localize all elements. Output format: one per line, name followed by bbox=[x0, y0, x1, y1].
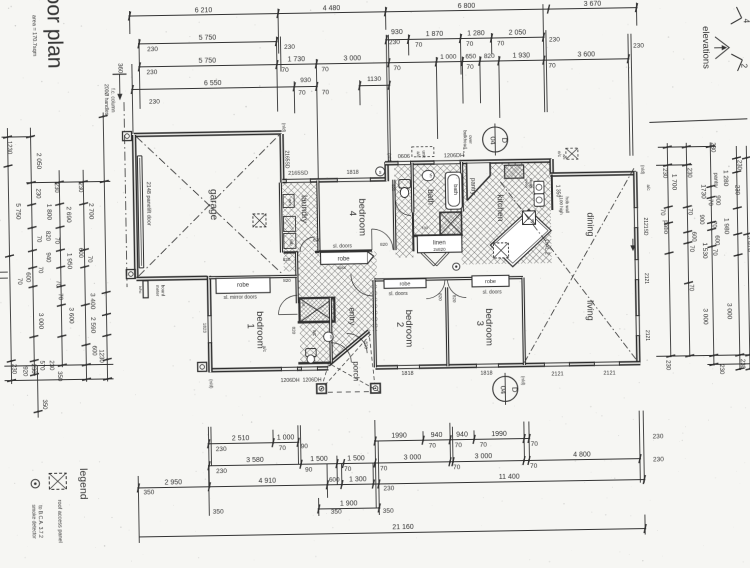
svg-text:5 750: 5 750 bbox=[14, 203, 21, 220]
svg-text:1 870: 1 870 bbox=[426, 31, 444, 38]
svg-text:230: 230 bbox=[216, 446, 227, 453]
svg-text:70: 70 bbox=[530, 463, 538, 470]
svg-text:04: 04 bbox=[489, 136, 498, 144]
svg-text:230: 230 bbox=[146, 69, 157, 76]
svg-text:over: over bbox=[468, 135, 473, 144]
svg-text:3 000: 3 000 bbox=[475, 453, 493, 460]
svg-text:3 000: 3 000 bbox=[701, 308, 708, 325]
svg-text:570: 570 bbox=[38, 360, 44, 371]
svg-text:600: 600 bbox=[713, 235, 719, 246]
svg-text:1206DH: 1206DH bbox=[281, 378, 300, 384]
svg-text:900: 900 bbox=[714, 195, 720, 206]
svg-text:1823: 1823 bbox=[202, 323, 207, 334]
svg-text:a/c: a/c bbox=[262, 346, 267, 353]
svg-text:70: 70 bbox=[281, 67, 289, 74]
svg-text:wm: wm bbox=[288, 199, 293, 206]
svg-text:2121: 2121 bbox=[644, 330, 650, 341]
svg-text:3 670: 3 670 bbox=[584, 1, 602, 8]
svg-text:70: 70 bbox=[688, 284, 694, 291]
svg-text:2121: 2121 bbox=[643, 273, 649, 284]
svg-text:940: 940 bbox=[431, 432, 443, 439]
svg-text:70: 70 bbox=[53, 237, 59, 244]
svg-text:4 480: 4 480 bbox=[323, 5, 341, 12]
svg-text:sl. doors: sl. doors bbox=[483, 289, 502, 295]
svg-text:70: 70 bbox=[455, 442, 463, 449]
svg-text:sl. doors: sl. doors bbox=[389, 291, 408, 297]
svg-text:230: 230 bbox=[733, 185, 739, 196]
svg-text:70: 70 bbox=[321, 66, 329, 73]
svg-text:2x820: 2x820 bbox=[433, 247, 446, 252]
svg-text:(n/d): (n/d) bbox=[521, 376, 526, 386]
svg-text:70: 70 bbox=[57, 293, 63, 300]
svg-text:5 750: 5 750 bbox=[198, 58, 216, 65]
svg-text:230: 230 bbox=[664, 360, 670, 371]
svg-text:70: 70 bbox=[37, 267, 43, 274]
svg-text:pantry: pantry bbox=[469, 178, 475, 195]
svg-text:bath: bath bbox=[426, 189, 435, 205]
svg-text:(n/d): (n/d) bbox=[387, 153, 392, 163]
svg-text:21 160: 21 160 bbox=[392, 524, 414, 531]
svg-text:1730: 1730 bbox=[699, 184, 706, 199]
svg-text:1100 high: 1100 high bbox=[559, 195, 564, 215]
svg-text:230: 230 bbox=[147, 46, 158, 53]
svg-text:3 600: 3 600 bbox=[67, 307, 74, 324]
svg-text:2165SD: 2165SD bbox=[283, 150, 289, 169]
svg-text:230: 230 bbox=[389, 39, 400, 46]
svg-text:robe: robe bbox=[338, 256, 351, 262]
svg-text:600: 600 bbox=[91, 346, 97, 357]
svg-text:GAL 2: GAL 2 bbox=[543, 239, 549, 254]
svg-text:bedroom: bedroom bbox=[403, 310, 415, 348]
svg-text:sd: sd bbox=[301, 302, 306, 306]
svg-text:820: 820 bbox=[452, 295, 457, 303]
svg-text:350: 350 bbox=[331, 509, 342, 516]
svg-text:1206DH: 1206DH bbox=[303, 377, 322, 383]
svg-text:3 000: 3 000 bbox=[725, 303, 732, 320]
svg-text:1 930: 1 930 bbox=[512, 52, 530, 59]
svg-text:1 500: 1 500 bbox=[310, 456, 328, 463]
svg-text:legend: legend bbox=[77, 468, 90, 500]
svg-text:2 590: 2 590 bbox=[89, 317, 96, 334]
svg-text:70: 70 bbox=[453, 464, 461, 471]
svg-text:unit: unit bbox=[421, 150, 426, 158]
svg-text:1 000: 1 000 bbox=[440, 54, 457, 61]
svg-text:patio: patio bbox=[662, 220, 669, 235]
svg-text:350: 350 bbox=[143, 489, 154, 496]
svg-text:230: 230 bbox=[549, 36, 560, 43]
svg-text:70: 70 bbox=[531, 441, 539, 448]
svg-text:230: 230 bbox=[709, 142, 715, 153]
svg-text:70: 70 bbox=[548, 62, 556, 69]
svg-text:70: 70 bbox=[54, 280, 60, 287]
svg-text:pantry: pantry bbox=[712, 173, 718, 189]
svg-text:820: 820 bbox=[283, 278, 291, 283]
svg-text:70: 70 bbox=[711, 249, 717, 256]
svg-text:600: 600 bbox=[690, 232, 696, 243]
svg-text:230: 230 bbox=[34, 189, 40, 200]
svg-text:sl. doors: sl. doors bbox=[333, 243, 352, 249]
svg-text:2 510: 2 510 bbox=[232, 435, 250, 442]
svg-text:230: 230 bbox=[718, 364, 724, 375]
svg-text:04: 04 bbox=[499, 386, 508, 394]
svg-text:70: 70 bbox=[497, 40, 505, 47]
svg-text:920: 920 bbox=[21, 366, 27, 377]
svg-text:linen: linen bbox=[433, 240, 446, 246]
svg-text:70: 70 bbox=[380, 465, 388, 472]
svg-text:1 730: 1 730 bbox=[287, 56, 305, 63]
svg-text:1 350: 1 350 bbox=[554, 185, 560, 198]
svg-text:laundry: laundry bbox=[300, 195, 310, 224]
svg-text:3 000: 3 000 bbox=[343, 55, 361, 62]
svg-text:2148 panelift door: 2148 panelift door bbox=[145, 182, 152, 226]
svg-text:70: 70 bbox=[659, 209, 665, 216]
svg-text:1990: 1990 bbox=[491, 431, 507, 438]
svg-text:350: 350 bbox=[383, 508, 394, 515]
svg-text:350: 350 bbox=[41, 399, 47, 410]
svg-text:820: 820 bbox=[438, 293, 443, 301]
svg-text:820: 820 bbox=[484, 53, 495, 60]
svg-text:f.c. column: f.c. column bbox=[109, 88, 115, 112]
svg-text:1 800: 1 800 bbox=[45, 204, 52, 221]
svg-text:70: 70 bbox=[344, 466, 352, 473]
svg-text:70: 70 bbox=[86, 256, 92, 263]
svg-text:360: 360 bbox=[116, 63, 122, 74]
svg-text:hob wall: hob wall bbox=[565, 197, 570, 214]
svg-text:2 050: 2 050 bbox=[35, 153, 42, 170]
svg-text:6 550: 6 550 bbox=[204, 80, 222, 87]
svg-text:1 000: 1 000 bbox=[277, 434, 295, 441]
svg-text:70: 70 bbox=[16, 278, 22, 285]
svg-text:70: 70 bbox=[415, 42, 423, 49]
svg-text:1 950: 1 950 bbox=[65, 253, 72, 270]
svg-text:930: 930 bbox=[300, 77, 311, 84]
svg-text:D: D bbox=[510, 387, 519, 393]
svg-text:11 400: 11 400 bbox=[499, 474, 520, 481]
svg-text:2: 2 bbox=[739, 64, 748, 69]
svg-text:3 600: 3 600 bbox=[577, 51, 595, 58]
svg-text:820: 820 bbox=[363, 341, 368, 349]
svg-text:6 800: 6 800 bbox=[458, 3, 476, 10]
svg-text:1: 1 bbox=[245, 323, 256, 328]
svg-text:2121: 2121 bbox=[603, 371, 615, 377]
svg-text:730: 730 bbox=[421, 225, 429, 230]
svg-text:3 400: 3 400 bbox=[89, 293, 96, 310]
svg-text:70: 70 bbox=[686, 208, 692, 215]
svg-text:1130: 1130 bbox=[367, 76, 381, 83]
svg-text:230: 230 bbox=[661, 168, 667, 179]
svg-text:a/c: a/c bbox=[416, 151, 421, 158]
svg-text:bedroom: bedroom bbox=[356, 198, 368, 236]
svg-text:1818: 1818 bbox=[347, 170, 359, 176]
svg-text:820: 820 bbox=[283, 257, 291, 262]
svg-text:roof access panel: roof access panel bbox=[56, 500, 63, 543]
svg-text:3 000: 3 000 bbox=[404, 454, 422, 461]
svg-text:area = 170.7sqm: area = 170.7sqm bbox=[31, 15, 38, 57]
svg-text:230: 230 bbox=[216, 468, 227, 475]
svg-text:5 750: 5 750 bbox=[199, 35, 217, 42]
svg-text:230: 230 bbox=[77, 182, 83, 193]
svg-text:70: 70 bbox=[711, 221, 717, 228]
svg-text:70: 70 bbox=[707, 199, 713, 206]
svg-text:1206DH: 1206DH bbox=[444, 153, 464, 159]
svg-text:sl. mirror doors: sl. mirror doors bbox=[224, 294, 258, 301]
svg-text:4: 4 bbox=[742, 19, 750, 24]
svg-text:living: living bbox=[585, 300, 595, 321]
svg-text:bedroom: bedroom bbox=[254, 311, 266, 349]
svg-text:350: 350 bbox=[56, 371, 62, 382]
svg-text:650: 650 bbox=[465, 53, 476, 60]
svg-text:70: 70 bbox=[466, 64, 474, 71]
svg-text:(n/d): (n/d) bbox=[209, 379, 214, 389]
svg-text:e/c: e/c bbox=[557, 151, 562, 158]
svg-text:1 980: 1 980 bbox=[722, 218, 729, 235]
svg-text:spur: spur bbox=[337, 265, 346, 270]
svg-text:1818: 1818 bbox=[401, 371, 413, 377]
svg-text:820: 820 bbox=[313, 237, 321, 242]
svg-text:230: 230 bbox=[284, 44, 295, 51]
svg-text:940: 940 bbox=[456, 431, 468, 438]
svg-text:D: D bbox=[500, 138, 509, 144]
svg-text:(n/d): (n/d) bbox=[640, 165, 645, 175]
svg-text:3: 3 bbox=[474, 321, 485, 326]
svg-text:2 950: 2 950 bbox=[164, 479, 182, 486]
svg-text:3 670: 3 670 bbox=[746, 236, 750, 253]
svg-text:to B.C.A. 3.7.2: to B.C.A. 3.7.2 bbox=[37, 505, 44, 538]
svg-text:2 050: 2 050 bbox=[509, 29, 527, 36]
svg-text:230: 230 bbox=[53, 183, 59, 194]
svg-text:90: 90 bbox=[301, 443, 309, 450]
svg-text:820: 820 bbox=[380, 242, 388, 247]
svg-text:820: 820 bbox=[291, 327, 296, 335]
svg-text:1230: 1230 bbox=[98, 349, 104, 363]
svg-text:3 000: 3 000 bbox=[37, 313, 44, 330]
svg-text:230: 230 bbox=[653, 433, 664, 440]
svg-text:1 280: 1 280 bbox=[722, 170, 729, 187]
svg-text:vb: vb bbox=[329, 335, 333, 339]
svg-text:230: 230 bbox=[633, 43, 644, 50]
svg-text:bath: bath bbox=[452, 184, 458, 195]
svg-text:wc: wc bbox=[311, 330, 317, 337]
svg-text:0606: 0606 bbox=[398, 154, 410, 160]
svg-text:2: 2 bbox=[394, 322, 405, 327]
svg-text:kitchen: kitchen bbox=[496, 194, 506, 221]
svg-text:1818: 1818 bbox=[480, 371, 492, 377]
svg-text:70: 70 bbox=[429, 443, 437, 450]
svg-text:1 700: 1 700 bbox=[670, 174, 677, 191]
svg-text:tub: tub bbox=[289, 239, 294, 246]
svg-text:1 280: 1 280 bbox=[467, 30, 485, 37]
svg-text:900: 900 bbox=[698, 215, 704, 226]
svg-text:robe: robe bbox=[399, 281, 410, 287]
svg-text:70: 70 bbox=[279, 445, 287, 452]
svg-text:2 700: 2 700 bbox=[87, 203, 94, 220]
svg-text:70: 70 bbox=[688, 245, 694, 252]
svg-text:70: 70 bbox=[322, 89, 330, 96]
svg-text:6 210: 6 210 bbox=[195, 7, 213, 14]
svg-text:230: 230 bbox=[686, 168, 692, 179]
svg-text:robe: robe bbox=[237, 283, 250, 289]
svg-text:elevations: elevations bbox=[700, 26, 712, 69]
svg-text:(n/d): (n/d) bbox=[281, 123, 286, 133]
svg-text:smoke detector: smoke detector bbox=[30, 505, 37, 540]
svg-text:70: 70 bbox=[393, 65, 401, 72]
svg-text:a/c: a/c bbox=[646, 184, 651, 191]
svg-text:3 580: 3 580 bbox=[246, 457, 264, 464]
svg-text:1 300: 1 300 bbox=[349, 476, 367, 483]
svg-text:2121SD: 2121SD bbox=[642, 217, 648, 236]
svg-text:k/hc: k/hc bbox=[138, 286, 143, 293]
svg-text:meter: meter bbox=[155, 285, 160, 297]
svg-text:1 900: 1 900 bbox=[340, 500, 358, 507]
svg-text:230: 230 bbox=[149, 99, 160, 106]
svg-text:70: 70 bbox=[480, 442, 488, 449]
svg-text:940: 940 bbox=[44, 252, 50, 263]
svg-text:4: 4 bbox=[347, 211, 358, 216]
svg-text:350: 350 bbox=[213, 509, 224, 516]
svg-text:1 500: 1 500 bbox=[347, 455, 365, 462]
svg-text:930: 930 bbox=[391, 29, 403, 36]
svg-text:dining: dining bbox=[585, 212, 595, 236]
svg-text:2 690: 2 690 bbox=[65, 206, 72, 223]
svg-text:garage: garage bbox=[207, 189, 219, 221]
svg-text:600: 600 bbox=[329, 477, 340, 484]
svg-text:820: 820 bbox=[44, 231, 50, 242]
svg-text:200Ø handles-: 200Ø handles- bbox=[103, 84, 110, 117]
svg-text:230: 230 bbox=[736, 160, 742, 171]
svg-text:wo: wo bbox=[531, 219, 536, 225]
svg-text:board: board bbox=[161, 285, 166, 297]
svg-text:230: 230 bbox=[383, 485, 394, 492]
svg-text:1230: 1230 bbox=[6, 141, 12, 155]
svg-text:600: 600 bbox=[24, 272, 30, 283]
svg-text:bulkhead: bulkhead bbox=[462, 130, 467, 149]
svg-text:2121: 2121 bbox=[551, 371, 563, 377]
svg-text:820: 820 bbox=[391, 184, 396, 192]
svg-text:a/c: a/c bbox=[562, 154, 567, 159]
svg-text:90: 90 bbox=[305, 467, 313, 474]
svg-text:4 910: 4 910 bbox=[258, 478, 276, 485]
svg-text:230: 230 bbox=[30, 364, 36, 375]
svg-text:floor plan: floor plan bbox=[42, 0, 66, 69]
svg-text:230: 230 bbox=[10, 364, 16, 375]
svg-text:70: 70 bbox=[298, 90, 306, 97]
svg-text:230: 230 bbox=[48, 360, 54, 371]
svg-text:bedroom: bedroom bbox=[483, 308, 495, 346]
svg-text:230: 230 bbox=[739, 359, 745, 370]
svg-text:70: 70 bbox=[35, 236, 41, 243]
svg-text:4 800: 4 800 bbox=[573, 451, 591, 458]
svg-text:robe: robe bbox=[485, 279, 496, 285]
svg-text:1 530: 1 530 bbox=[701, 242, 708, 259]
